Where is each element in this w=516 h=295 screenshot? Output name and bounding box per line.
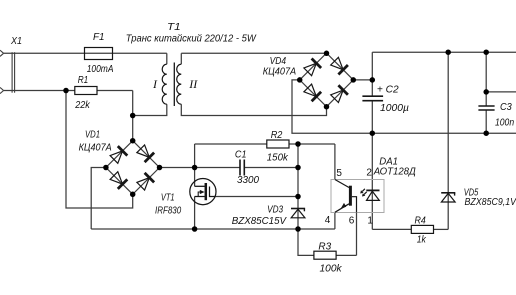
svg-text:VD3: VD3 <box>267 204 283 215</box>
svg-text:VT1: VT1 <box>161 193 175 204</box>
svg-text:АОТ128Д: АОТ128Д <box>373 167 416 178</box>
svg-text:22k: 22k <box>74 100 90 111</box>
svg-text:100n: 100n <box>495 117 514 128</box>
svg-text:КЦ407А: КЦ407А <box>263 67 297 78</box>
svg-text:R1: R1 <box>78 75 89 86</box>
svg-text:X1: X1 <box>10 36 22 47</box>
svg-text:C3: C3 <box>500 102 512 113</box>
svg-text:BZX85C15V: BZX85C15V <box>232 216 288 227</box>
svg-text:II: II <box>188 77 198 91</box>
svg-text:100mA: 100mA <box>87 64 114 75</box>
svg-text:2: 2 <box>366 167 372 178</box>
svg-text:100k: 100k <box>320 264 343 275</box>
svg-text:R2: R2 <box>271 130 283 141</box>
svg-text:4: 4 <box>325 215 331 226</box>
svg-text:+ C2: + C2 <box>377 84 399 95</box>
svg-text:1: 1 <box>367 215 373 226</box>
svg-text:5: 5 <box>336 168 342 179</box>
svg-text:R4: R4 <box>415 215 427 226</box>
svg-text:VD1: VD1 <box>85 129 100 140</box>
svg-text:КЦ407А: КЦ407А <box>79 143 112 154</box>
svg-text:T1: T1 <box>167 22 181 33</box>
svg-text:3300: 3300 <box>237 175 259 186</box>
svg-text:6: 6 <box>349 215 355 226</box>
svg-text:R3: R3 <box>318 241 331 252</box>
svg-text:150k: 150k <box>267 152 289 163</box>
svg-text:BZX85C9,1V: BZX85C9,1V <box>465 197 516 208</box>
svg-text:F1: F1 <box>93 32 105 43</box>
svg-text:IRF830: IRF830 <box>155 206 182 217</box>
svg-text:1k: 1k <box>417 235 427 246</box>
svg-text:C1: C1 <box>235 150 247 161</box>
svg-text:Транс китайский 220/12 - 5W: Транс китайский 220/12 - 5W <box>126 34 257 45</box>
svg-text:1000µ: 1000µ <box>380 103 409 114</box>
